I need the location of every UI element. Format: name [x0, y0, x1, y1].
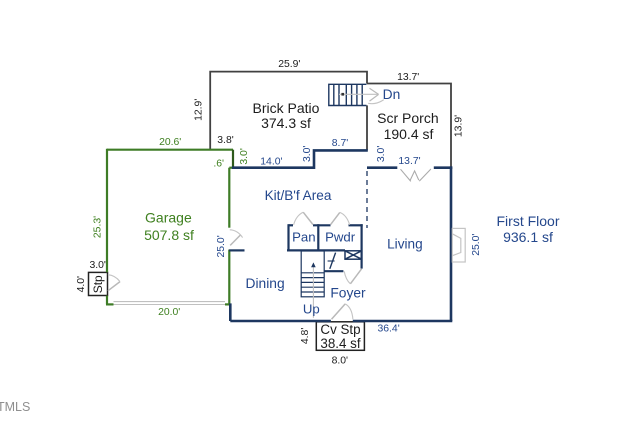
svg-text:8.0': 8.0': [332, 356, 348, 367]
svg-text:Cv Stp: Cv Stp: [320, 322, 360, 337]
svg-text:Scr Porch: Scr Porch: [377, 110, 438, 126]
svg-text:13.7': 13.7': [398, 156, 420, 167]
svg-text:Foyer: Foyer: [330, 286, 366, 301]
svg-text:Dining: Dining: [246, 276, 285, 291]
svg-text:36.4': 36.4': [377, 323, 399, 334]
svg-text:Dn: Dn: [383, 87, 401, 102]
svg-text:13.9': 13.9': [454, 115, 465, 137]
svg-text:.6': .6': [213, 159, 224, 170]
svg-text:TMLS: TMLS: [0, 400, 30, 414]
svg-text:3.8': 3.8': [217, 135, 233, 146]
svg-text:190.4 sf: 190.4 sf: [384, 126, 434, 142]
svg-text:8.7': 8.7': [332, 138, 348, 149]
svg-text:Brick Patio: Brick Patio: [253, 100, 320, 116]
svg-text:12.9': 12.9': [194, 99, 205, 121]
svg-text:3.0': 3.0': [376, 146, 387, 162]
svg-text:374.3 sf: 374.3 sf: [261, 115, 311, 131]
svg-text:4.8': 4.8': [300, 328, 311, 344]
svg-text:14.0': 14.0': [260, 156, 282, 167]
svg-text:25.0': 25.0': [471, 234, 482, 256]
svg-text:Living: Living: [387, 236, 423, 251]
svg-text:20.6': 20.6': [159, 137, 181, 148]
svg-text:First Floor: First Floor: [497, 213, 560, 229]
svg-text:4.0': 4.0': [76, 276, 87, 292]
svg-text:38.4 sf: 38.4 sf: [320, 336, 360, 351]
svg-text:Pan: Pan: [292, 229, 315, 244]
svg-text:20.0': 20.0': [158, 307, 180, 318]
svg-text:25.9': 25.9': [278, 59, 300, 70]
svg-text:Stp: Stp: [91, 275, 105, 293]
svg-text:3.0': 3.0': [89, 260, 105, 271]
svg-text:Up: Up: [303, 302, 320, 317]
svg-text:Pwdr: Pwdr: [325, 229, 356, 244]
svg-text:3.0': 3.0': [239, 148, 250, 164]
svg-text:13.7': 13.7': [397, 72, 419, 83]
svg-text:936.1 sf: 936.1 sf: [503, 229, 553, 245]
svg-text:Kit/B'f Area: Kit/B'f Area: [265, 188, 332, 203]
svg-text:25.0': 25.0': [216, 235, 227, 257]
svg-text:Garage: Garage: [145, 209, 192, 225]
svg-text:25.3': 25.3': [92, 216, 103, 238]
svg-text:3.0': 3.0': [302, 146, 313, 162]
svg-text:507.8 sf: 507.8 sf: [144, 227, 194, 243]
